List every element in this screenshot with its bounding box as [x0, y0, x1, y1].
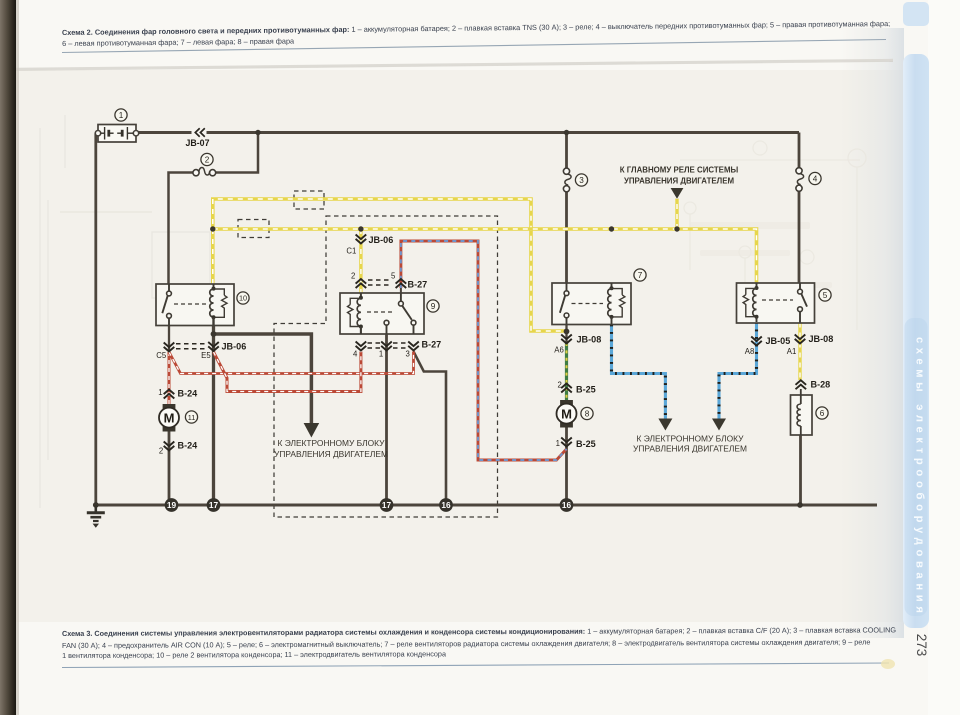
arrowhead blue 1 — [658, 419, 672, 431]
label circled 8 — [581, 407, 593, 419]
svg-text:К ГЛАВНОМУ РЕЛЕ СИСТЕМЫ: К ГЛАВНОМУ РЕЛЕ СИСТЕМЫ — [620, 166, 739, 175]
svg-text:16: 16 — [562, 500, 572, 510]
arrowhead to main relay — [671, 188, 684, 199]
label circled 10 — [237, 292, 249, 304]
svg-text:JB-08: JB-08 — [809, 334, 834, 344]
connector chevrons — [164, 235, 806, 451]
svg-text:2: 2 — [159, 446, 163, 455]
svg-text:2: 2 — [351, 271, 355, 280]
label circled 1 — [115, 109, 127, 121]
svg-text:6: 6 — [820, 409, 825, 418]
harness boundary (big dashed polygon) — [274, 216, 498, 517]
svg-text:11: 11 — [188, 413, 196, 422]
svg-text:C1: C1 — [346, 247, 356, 256]
svg-text:3: 3 — [579, 176, 584, 185]
svg-text:1: 1 — [556, 439, 560, 448]
svg-text:4: 4 — [353, 349, 358, 358]
crease line under header — [16, 60, 893, 69]
wire: relay 7 switch bottom to A6 junction — [565, 325, 567, 344]
svg-text:A8: A8 — [745, 347, 755, 356]
svg-text:JB-08: JB-08 — [577, 335, 602, 345]
wire: thick branch to engine ECU arrow — [214, 334, 312, 424]
wire: green-black A6 to motor 8 pin 2 — [565, 343, 568, 400]
text to engine ECU left — [274, 438, 388, 459]
wire: yellow branch to relay 9 pin 2 (C1 JB-06) — [359, 229, 362, 293]
svg-text:JB-07: JB-07 — [186, 138, 210, 148]
label circled 6 — [816, 407, 828, 419]
fuse 2 — [193, 168, 216, 176]
wire: relay 10 coil bottom through E5 to ground node 17 — [212, 326, 215, 506]
connector pass-through box (dashed) on upper yellow bus — [294, 191, 324, 209]
component 6 electromagnetic switch — [791, 389, 813, 435]
svg-text:B-27: B-27 — [408, 279, 428, 289]
wire: relay 9 pin 3 dark branch to ground node 16 — [414, 352, 447, 506]
svg-text:B-27: B-27 — [422, 340, 442, 350]
wire: yellow A1 to B-28 to component 6 — [798, 323, 801, 381]
wire: red C5 to motor 11 pin 1 — [168, 352, 171, 404]
wire: relay 9 pin 5 stub — [400, 287, 402, 293]
svg-text:2: 2 — [205, 155, 210, 164]
bleed-through ghosts right — [680, 141, 866, 330]
ground node 17b — [380, 498, 394, 512]
label circled 2 — [201, 153, 213, 165]
svg-text:B-25: B-25 — [576, 385, 596, 395]
svg-text:7: 7 — [638, 271, 643, 280]
wire: component 6 to ground — [799, 435, 802, 505]
label circled 9 — [427, 300, 439, 312]
svg-text:схемы электрооборудования: схемы электрооборудования — [914, 337, 926, 618]
svg-text:10: 10 — [239, 294, 247, 303]
relay 7 — [552, 283, 631, 325]
svg-text:1: 1 — [158, 388, 162, 397]
svg-text:УПРАВЛЕНИЯ ДВИГАТЕЛЕМ: УПРАВЛЕНИЯ ДВИГАТЕЛЕМ — [274, 449, 388, 459]
svg-text:17: 17 — [382, 500, 392, 510]
caption rule — [62, 663, 889, 668]
arrowhead ECU left — [304, 423, 320, 438]
svg-text:УПРАВЛЕНИЯ ДВИГАТЕЛЕМ: УПРАВЛЕНИЯ ДВИГАТЕЛЕМ — [624, 177, 735, 186]
svg-text:19: 19 — [167, 500, 177, 510]
wire: red E5 to relay 9 pin 4 — [214, 352, 361, 392]
ground node 16a — [439, 498, 453, 512]
relay 9 — [340, 293, 424, 334]
svg-text:16: 16 — [441, 500, 451, 510]
connector JB-07 inline chevrons — [192, 128, 207, 138]
label circled 4 — [809, 172, 821, 184]
wire: red C5 to relay 9 pin 3 — [169, 352, 414, 374]
svg-text:2: 2 — [557, 380, 561, 389]
svg-text:B-25: B-25 — [576, 439, 596, 449]
page curvature shading right — [840, 28, 904, 638]
blue side tab — [903, 2, 929, 26]
svg-text:B-28: B-28 — [811, 380, 831, 390]
svg-text:JB-06: JB-06 — [369, 235, 394, 245]
arrowhead blue 2 — [712, 419, 726, 431]
svg-text:273: 273 — [914, 634, 929, 657]
label circled 7 — [634, 269, 646, 281]
bottom caption schema 3 — [62, 625, 896, 660]
svg-text:8: 8 — [585, 409, 590, 418]
wire: feed through fuse 4 to relay 5 switch — [798, 133, 801, 284]
book spine left — [0, 0, 16, 715]
wire: yellow bus 1 (to relay 10 coil / relay 7 A6) — [213, 199, 567, 331]
chevron dashed links — [176, 280, 407, 349]
junction dot battery-ground — [93, 502, 99, 508]
svg-text:A6: A6 — [554, 345, 564, 354]
svg-text:4: 4 — [813, 174, 818, 183]
svg-text:E5: E5 — [201, 351, 211, 360]
paper blemish — [881, 659, 895, 669]
text to main relay — [620, 166, 739, 186]
wire: ground bus — [94, 504, 877, 507]
svg-text:К ЭЛЕКТРОННОМУ БЛОКУ: К ЭЛЕКТРОННОМУ БЛОКУ — [637, 434, 745, 444]
wire: yellow bus 2 (to relay 9 pin2, relay 7 coil, main relay, relay 5 coil) — [213, 229, 757, 284]
connector pass-through box (dashed) on lower yellow bus — [238, 220, 269, 238]
svg-text:17: 17 — [209, 500, 219, 510]
wire: feed through fuse 3 to relay 7 switch — [565, 133, 568, 284]
label circled 5 — [819, 289, 831, 301]
wire: relay 10 switch to connector C5 — [168, 326, 170, 353]
svg-text:5: 5 — [823, 291, 828, 300]
svg-text:9: 9 — [431, 302, 436, 311]
fuse 3 — [563, 168, 571, 192]
bleed-through ghosts left — [40, 115, 210, 508]
svg-text:A1: A1 — [787, 347, 797, 356]
ground node 16b — [560, 498, 574, 512]
header caption schema 2 — [62, 19, 890, 48]
svg-text:3: 3 — [405, 349, 409, 358]
svg-text:УПРАВЛЕНИЯ ДВИГАТЕЛЕМ: УПРАВЛЕНИЯ ДВИГАТЕЛЕМ — [633, 444, 747, 454]
wire: yellow branch up to main engine relay — [675, 199, 678, 230]
svg-text:M: M — [561, 406, 572, 421]
ground node 19 — [165, 498, 179, 512]
label circled 11 — [185, 411, 197, 423]
wire: relay 9 pin 1 to ground node 17 — [385, 325, 388, 505]
svg-text:К ЭЛЕКТРОННОМУ БЛОКУ: К ЭЛЕКТРОННОМУ БЛОКУ — [278, 438, 386, 448]
wire: battery positive feed (top) — [138, 131, 799, 134]
ground node circles — [165, 498, 574, 512]
motor 11 — [159, 404, 179, 432]
svg-text:JB-05: JB-05 — [766, 336, 791, 346]
motor 8 — [557, 400, 577, 428]
svg-text:JB-06: JB-06 — [222, 341, 247, 351]
wire: battery negative to ground — [94, 133, 97, 504]
svg-text:5: 5 — [391, 271, 396, 280]
text to engine ECU right — [633, 434, 747, 454]
svg-text:M: M — [164, 410, 175, 425]
svg-text:1: 1 — [119, 111, 124, 120]
label circled 3 — [575, 174, 587, 186]
wire: red-blue relay 9 pin 5 to motor 8 pin 1 — [401, 241, 567, 460]
header rule — [62, 40, 886, 53]
svg-text:1: 1 — [379, 349, 383, 358]
fuse 4 — [796, 168, 804, 192]
pin labels — [156, 247, 796, 456]
connector name labels — [178, 235, 834, 450]
ground node 17a — [207, 498, 221, 512]
battery 1 — [95, 125, 138, 143]
svg-text:B-24: B-24 — [178, 388, 199, 398]
wire: motor 8 to ground node 16 — [565, 428, 568, 506]
relay 10 — [156, 284, 234, 326]
relay 5 — [737, 283, 815, 323]
svg-text:1 вентилятора конденсора; 10 –: 1 вентилятора конденсора; 10 – реле 2 ве… — [62, 649, 447, 660]
svg-text:B-24: B-24 — [178, 441, 199, 451]
svg-text:C5: C5 — [156, 351, 167, 360]
wire: blue-black relay 5 coil A8 to ECU arrow — [719, 322, 757, 419]
wire: blue-black relay 7 coil to ECU arrow — [612, 325, 666, 420]
wire: feed branch to fuse 2 and relay 10 switch — [169, 133, 259, 285]
wire: motor 11 to ground node 19 — [168, 432, 171, 506]
ground symbol — [87, 505, 105, 521]
